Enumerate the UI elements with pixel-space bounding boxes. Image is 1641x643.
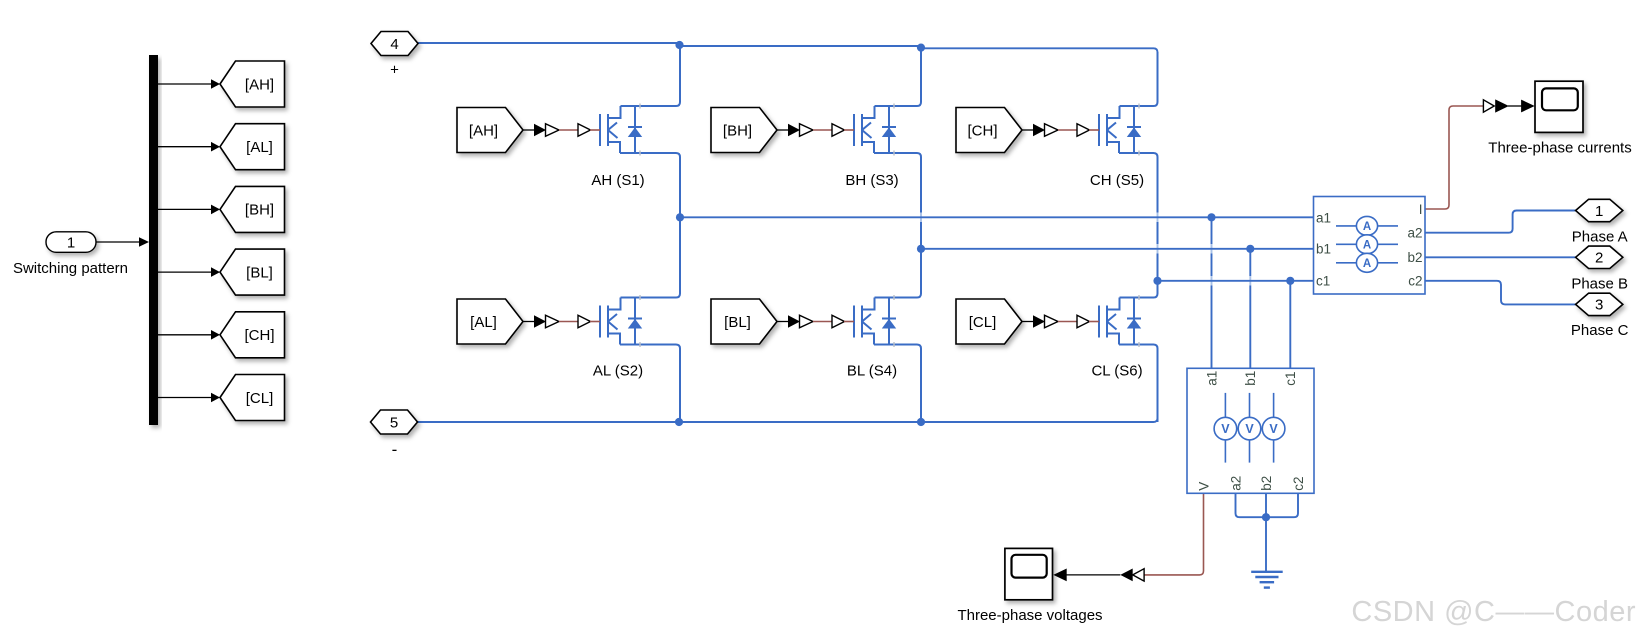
svg-text:b2: b2 [1259,476,1274,491]
svg-text:CSDN @C——Coder: CSDN @C——Coder [1351,596,1636,628]
svg-text:[AH]: [AH] [469,122,498,139]
svg-text:Phase A: Phase A [1572,228,1628,245]
svg-text:3: 3 [1595,297,1603,314]
svg-text:b2: b2 [1407,250,1422,265]
svg-text:V: V [1269,422,1278,436]
svg-text:V: V [1221,422,1230,436]
svg-text:Phase B: Phase B [1571,275,1628,292]
svg-text:a2: a2 [1228,476,1243,491]
svg-text:V: V [1196,482,1211,491]
svg-text:4: 4 [390,36,398,53]
svg-text:b1: b1 [1243,371,1258,386]
svg-text:A: A [1363,258,1371,270]
svg-text:c1: c1 [1316,273,1330,288]
svg-text:c2: c2 [1408,273,1422,288]
svg-text:[CH]: [CH] [245,327,275,344]
svg-text:BH (S3): BH (S3) [845,172,898,189]
svg-text:AL (S2): AL (S2) [593,362,643,379]
svg-text:[BL]: [BL] [246,264,273,281]
svg-text:1: 1 [1595,203,1603,220]
svg-text:CH (S5): CH (S5) [1090,172,1144,189]
svg-text:a1: a1 [1204,371,1219,386]
svg-text:[AL]: [AL] [470,314,497,331]
svg-text:c2: c2 [1291,477,1306,491]
svg-text:[AH]: [AH] [245,76,274,93]
svg-text:Three-phase currents: Three-phase currents [1488,139,1631,156]
svg-text:+: + [390,62,399,79]
svg-text:[BH]: [BH] [723,122,752,139]
svg-text:Switching pattern: Switching pattern [13,260,128,277]
svg-text:I: I [1419,202,1423,217]
svg-text:CL (S6): CL (S6) [1091,362,1142,379]
svg-text:2: 2 [1595,250,1603,267]
svg-text:V: V [1245,422,1254,436]
svg-text:Three-phase voltages: Three-phase voltages [957,607,1102,624]
svg-text:a1: a1 [1316,210,1331,225]
svg-text:[AL]: [AL] [246,139,273,156]
svg-text:A: A [1363,221,1371,233]
svg-text:b1: b1 [1316,241,1331,256]
svg-text:-: - [392,440,398,459]
svg-text:a2: a2 [1407,226,1422,241]
svg-text:1: 1 [67,234,75,251]
svg-text:[BH]: [BH] [245,202,274,219]
svg-text:c1: c1 [1283,372,1298,386]
svg-text:Phase C: Phase C [1571,322,1629,339]
svg-text:A: A [1363,240,1371,252]
svg-text:BL (S4): BL (S4) [847,362,897,379]
svg-text:[CL]: [CL] [246,390,274,407]
svg-text:AH (S1): AH (S1) [591,172,644,189]
svg-text:5: 5 [390,414,398,431]
svg-text:[CL]: [CL] [969,314,997,331]
svg-text:[BL]: [BL] [724,314,751,331]
svg-text:[CH]: [CH] [968,122,998,139]
